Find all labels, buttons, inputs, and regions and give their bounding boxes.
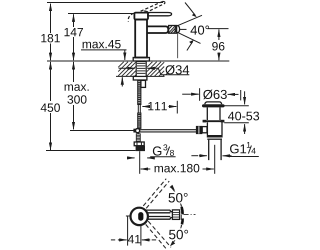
wire mounting deck surface line	[47, 60, 229, 62]
label max.45 with leader	[83, 40, 121, 48]
wire extension line lever top	[68, 13, 134, 15]
mounting nut below deck	[133, 76, 147, 80]
pop-up ball housing	[196, 126, 207, 134]
dimension 147 line	[73, 14, 75, 27]
waste plug cap	[205, 102, 222, 104]
label max.300	[65, 84, 89, 91]
dimension 450 line	[50, 62, 52, 101]
label 50° lower	[167, 228, 190, 240]
pull rod plain section	[138, 105, 140, 114]
dimension 111	[142, 106, 148, 108]
waste nut bottom band	[207, 135, 223, 138]
wire extension line rod level	[70, 130, 135, 132]
spray angle line upper	[176, 15, 202, 26]
rod-to-waste junction	[133, 129, 136, 133]
faucet spout	[147, 26, 168, 33]
spray arc arrow lower	[187, 42, 193, 51]
dimension max.300 line	[73, 62, 75, 82]
spray angle line lower	[176, 32, 200, 44]
lever swing arc right small (dashed)	[144, 11, 149, 14]
dimension 181 line	[50, 4, 52, 33]
label 450	[41, 103, 60, 111]
deck cross-section left hatch	[116, 62, 136, 77]
centerline tick left	[126, 215, 131, 217]
swivel arc upper thin with arrow	[171, 187, 182, 206]
dimension max.180	[139, 151, 141, 174]
dimension Ø34 arrows + label	[119, 67, 135, 69]
faucet body	[135, 20, 147, 58]
faucet base plinth	[133, 58, 149, 62]
hose below junction	[138, 132, 140, 134]
dimension 40-53	[224, 91, 259, 134]
label G1 1/4 underlined	[229, 142, 259, 157]
threaded pull rod lower	[138, 113, 141, 128]
label 40°	[190, 26, 209, 35]
G3/8 nut (dark)	[136, 146, 145, 151]
faucet handle cartridge block	[134, 13, 148, 20]
swivel arc lower thin with arrow	[172, 225, 182, 244]
dimension 96	[208, 28, 229, 30]
body circle (top view)	[131, 208, 148, 225]
hose hex fitting	[134, 142, 144, 146]
centerline vertical at aerator	[180, 205, 182, 227]
spray axis dash	[179, 28, 187, 30]
spout swivelled +50° (dashed)	[143, 179, 169, 209]
spout (top view)	[145, 210, 170, 219]
aerator (top view)	[172, 210, 179, 220]
swivel arc bold segment upper	[182, 207, 183, 214]
spray arc arrow upper	[185, 3, 195, 16]
hose nipple	[141, 80, 146, 87]
label 181	[41, 33, 60, 44]
dimension Ø63	[182, 88, 241, 101]
hose ribbed section	[136, 134, 140, 142]
waste tailpiece	[209, 140, 221, 160]
wire extension line top (raised lever height ref)	[47, 2, 163, 4]
label G3/8 underlined	[150, 144, 175, 156]
wire extension line hose end	[46, 150, 136, 152]
horizontal pop-up rod to waste	[139, 130, 196, 132]
dimension G1 1/4 arrows	[191, 155, 198, 157]
waste flange band (dark)	[202, 104, 225, 107]
dimension G3/8 arrows	[129, 157, 135, 159]
threaded shank in deck	[136, 62, 146, 77]
dimension 41	[111, 216, 156, 245]
spout swivelled -50° (dashed)	[146, 221, 171, 248]
waste slip nut flange	[203, 120, 225, 123]
aerator	[169, 26, 180, 34]
swivel arc bold segment lower	[181, 219, 184, 225]
faucet lever handle	[148, 13, 172, 16]
waste nut body	[207, 122, 222, 135]
centerline horizontal at aerator	[184, 213, 196, 215]
waste washer line	[207, 138, 222, 140]
aerator drop line	[177, 34, 179, 59]
threaded pull rod upper	[138, 80, 141, 105]
waste body tube	[207, 107, 220, 120]
deck cross-section right hatch	[146, 62, 164, 77]
label 50° upper	[167, 192, 190, 204]
lever swing arc left (dashed)	[128, 13, 134, 21]
faucet lever raised (dashed)	[141, 2, 163, 12]
lever knob (top view)	[138, 212, 143, 221]
label 147	[65, 28, 84, 36]
